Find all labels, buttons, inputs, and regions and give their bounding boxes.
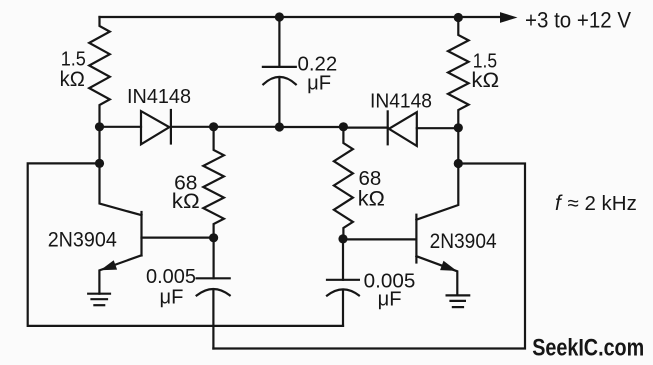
wire node to cap node (214, 126, 280, 128)
svg-text:2N3904: 2N3904 (430, 230, 497, 253)
svg-text:2N3904: 2N3904 (48, 229, 117, 252)
resistor R3 68k left (203, 127, 224, 238)
svg-text:kΩ: kΩ (60, 68, 85, 91)
svg-text:f: f (555, 192, 563, 215)
svg-text:IN4148: IN4148 (127, 86, 191, 108)
transistor Q2 2N3904 right (343, 215, 457, 296)
diode D1 IN4148 (141, 110, 171, 144)
svg-text:μF: μF (307, 72, 331, 94)
capacitor C2 0.005uF left (197, 238, 230, 349)
node dot right base (338, 234, 347, 243)
node dot 68k left top (209, 122, 218, 131)
svg-text:+3 to +12 V: +3 to +12 V (525, 7, 631, 32)
wire diode D2 to right column (417, 127, 459, 129)
capacitor C3 0.005uF right (327, 239, 359, 326)
svg-text:≈ 2 kHz: ≈ 2 kHz (568, 192, 637, 215)
capacitor C1 0.22uF (263, 17, 296, 127)
node dot 68k right top (339, 122, 348, 131)
wire to diode D2 (343, 126, 387, 128)
wire diode D1 to node (171, 126, 214, 128)
svg-text:μF: μF (160, 287, 184, 309)
ground left (88, 294, 110, 306)
ground right (447, 295, 470, 307)
wire left outer loop (28, 163, 343, 326)
resistor R1 1.5k left (89, 17, 110, 127)
node dot right diode row (454, 123, 463, 132)
node dot left collector (95, 159, 104, 168)
svg-text:kΩ: kΩ (172, 190, 200, 213)
supply arrow (500, 12, 518, 23)
wire top supply rail (100, 16, 502, 18)
svg-text:μF: μF (378, 289, 402, 311)
svg-text:68: 68 (359, 167, 382, 190)
svg-text:IN4148: IN4148 (370, 91, 432, 113)
node dot top right (454, 13, 463, 22)
svg-text:0.005: 0.005 (146, 266, 196, 288)
svg-text:SeekIC.com: SeekIC.com (532, 335, 644, 362)
node dot right collector (454, 159, 463, 168)
svg-text:kΩ: kΩ (358, 188, 385, 211)
resistor R4 68k right (334, 127, 353, 239)
node dot left diode row (95, 122, 104, 131)
node dot left base (209, 233, 218, 242)
wire cap node to right 68k node (279, 126, 343, 128)
wire left collector column (100, 127, 142, 215)
wire right collector column (416, 128, 458, 220)
node dot cap bottom (275, 122, 284, 131)
node dot top cap (275, 12, 284, 21)
wire diode row left (100, 126, 142, 128)
resistor R2 1.5k right (448, 18, 469, 128)
diode D2 IN4148 (388, 111, 417, 145)
wire cross-coupling bottom inner (213, 164, 525, 349)
transistor Q1 2N3904 left (99, 212, 213, 294)
svg-text:kΩ: kΩ (471, 68, 499, 92)
svg-text:1.5: 1.5 (61, 48, 86, 70)
